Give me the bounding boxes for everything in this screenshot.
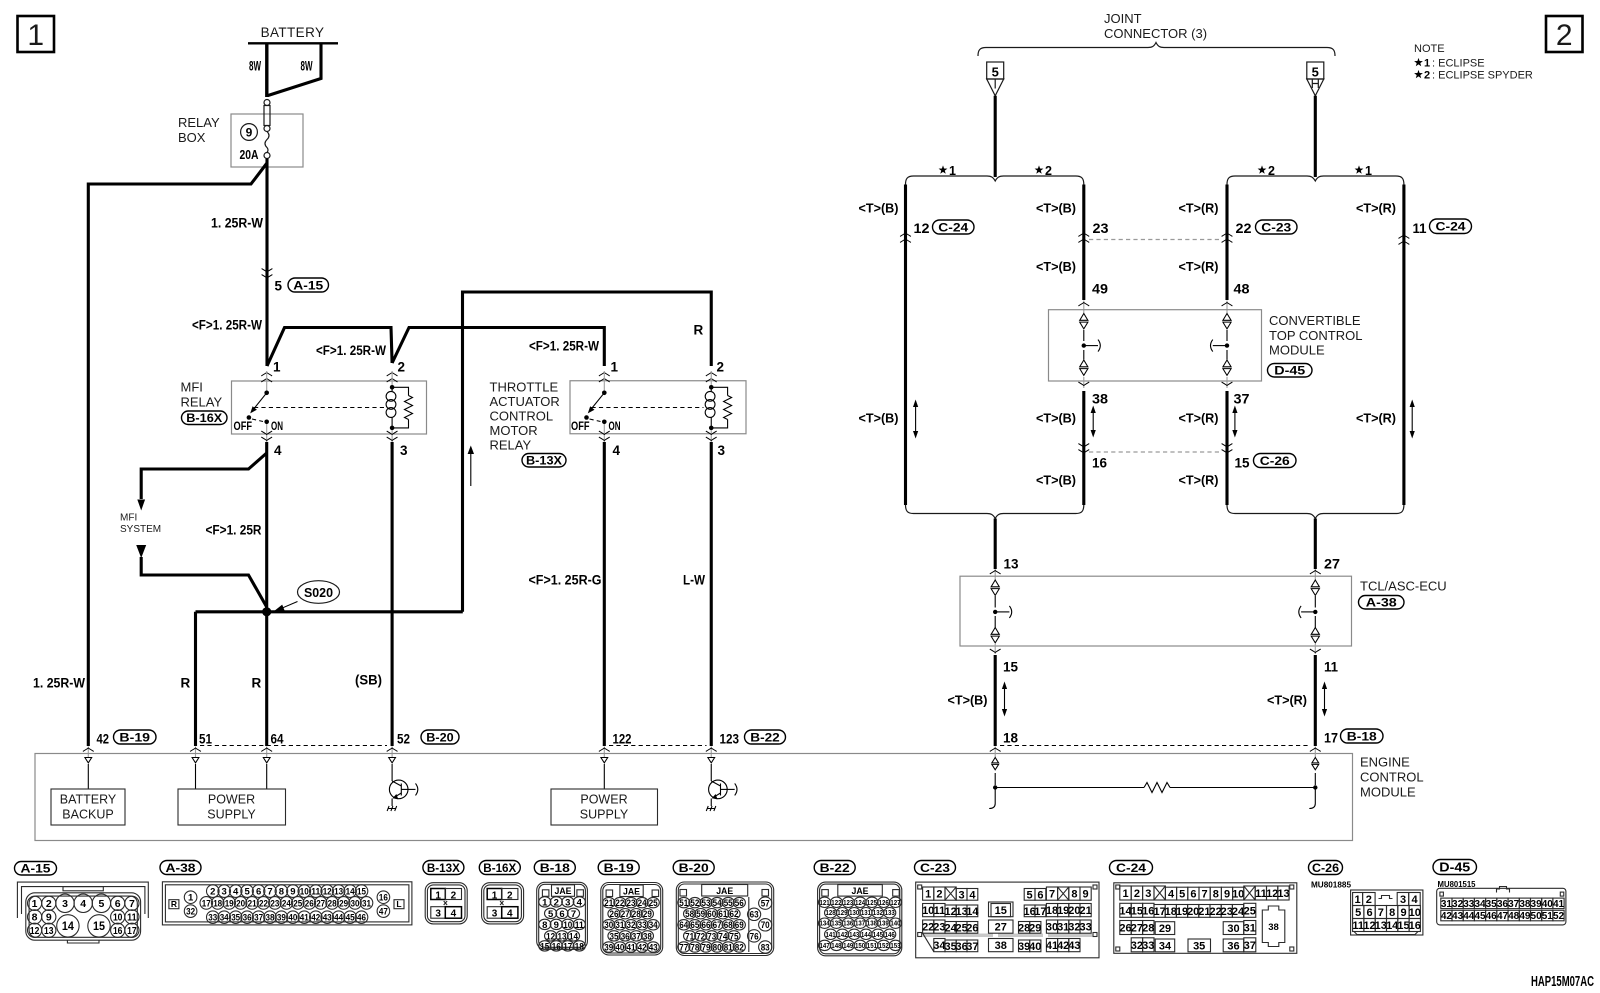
direction arrow bus2 xyxy=(1091,406,1096,438)
svg-text:41: 41 xyxy=(1553,899,1565,910)
svg-text:BACKUP: BACKUP xyxy=(62,808,113,822)
svg-text:: ECLIPSE SPYDER: : ECLIPSE SPYDER xyxy=(1432,70,1533,82)
connector A-15 pinout xyxy=(15,862,149,944)
svg-text:4: 4 xyxy=(507,909,513,920)
wire label T(R) bus4 mid xyxy=(1356,411,1396,426)
svg-text:6: 6 xyxy=(1037,889,1043,901)
throttle relay pin 1 xyxy=(599,360,619,391)
dashed link pins 51-64-52 xyxy=(200,745,387,747)
svg-text:46: 46 xyxy=(1486,911,1498,922)
svg-text:4: 4 xyxy=(969,889,976,901)
wire MFI pin4 down to node S020 xyxy=(265,442,268,612)
convertible top module internal right pin xyxy=(1211,314,1232,376)
svg-text:4: 4 xyxy=(274,443,282,458)
svg-text:11: 11 xyxy=(1324,660,1338,675)
connector A-38 pinout xyxy=(160,861,412,925)
svg-text:23: 23 xyxy=(627,898,636,909)
wire S020 to ECM pin 64 xyxy=(265,612,268,746)
svg-text:2: 2 xyxy=(210,887,215,898)
svg-text:18: 18 xyxy=(575,941,584,952)
svg-text:3: 3 xyxy=(959,889,965,901)
svg-text:16: 16 xyxy=(1092,456,1107,471)
svg-text:2: 2 xyxy=(1134,888,1140,900)
svg-text:4: 4 xyxy=(1168,889,1175,901)
svg-text:8: 8 xyxy=(279,887,284,898)
svg-text:5: 5 xyxy=(275,279,283,294)
svg-text:7: 7 xyxy=(1049,889,1055,901)
svg-text:B-13X: B-13X xyxy=(526,454,562,468)
svg-text:135: 135 xyxy=(831,921,841,928)
svg-text:31: 31 xyxy=(1441,899,1453,910)
convertible top module pin 37 xyxy=(1222,377,1250,407)
svg-text:58: 58 xyxy=(685,909,694,920)
wire MFI pin3 to ECM pin 52 xyxy=(391,442,394,746)
wire label 1.25R-W xyxy=(211,216,263,231)
svg-text:<T>(B): <T>(B) xyxy=(1036,259,1076,274)
MFI SYSTEM label xyxy=(120,513,161,536)
svg-text:B-16X: B-16X xyxy=(483,861,516,875)
svg-text:MFI: MFI xyxy=(181,380,203,395)
svg-text:83: 83 xyxy=(761,942,770,953)
svg-text:B-22: B-22 xyxy=(750,730,780,744)
svg-text:1: 1 xyxy=(925,889,931,901)
svg-text:67: 67 xyxy=(713,920,722,931)
TCL pin 15 to ECM pin 18 wire xyxy=(990,644,1019,746)
svg-text:37: 37 xyxy=(1508,899,1520,910)
connector C-26 pinout xyxy=(1309,861,1423,936)
svg-text:40: 40 xyxy=(615,942,624,953)
svg-text:5: 5 xyxy=(548,909,554,920)
svg-text:128: 128 xyxy=(826,910,836,917)
svg-text:<T>(R): <T>(R) xyxy=(1356,201,1396,216)
svg-text:S020: S020 xyxy=(304,586,333,600)
svg-text:69: 69 xyxy=(735,920,744,931)
svg-text:42: 42 xyxy=(1441,911,1453,922)
svg-text:2: 2 xyxy=(507,890,513,901)
transistor Q2 (pin 123 driver) xyxy=(706,758,737,812)
svg-text:9: 9 xyxy=(290,887,295,898)
connector B-20 pinout xyxy=(673,861,774,956)
connector C-24 pin 12 xyxy=(900,220,974,242)
svg-text:39: 39 xyxy=(1531,899,1543,910)
svg-text:140: 140 xyxy=(890,921,900,928)
svg-text:35: 35 xyxy=(610,931,620,942)
svg-text:7: 7 xyxy=(267,887,272,898)
throttle relay coil resistor xyxy=(711,387,731,428)
wire branch to battery backup (left) xyxy=(88,163,267,746)
svg-text:130: 130 xyxy=(849,910,859,917)
svg-text:8W: 8W xyxy=(301,59,313,74)
svg-text:17: 17 xyxy=(1034,906,1046,918)
svg-text:33: 33 xyxy=(1463,899,1475,910)
svg-text:9: 9 xyxy=(246,126,253,140)
svg-text:31: 31 xyxy=(362,898,372,909)
svg-text:SUPPLY: SUPPLY xyxy=(207,808,256,822)
svg-text:CONVERTIBLE: CONVERTIBLE xyxy=(1269,313,1361,328)
convertible top module internal left pin xyxy=(1080,314,1101,376)
svg-text:47: 47 xyxy=(1497,911,1509,922)
svg-text:36: 36 xyxy=(1227,940,1239,952)
svg-text:TOP CONTROL: TOP CONTROL xyxy=(1269,328,1362,343)
svg-text:3: 3 xyxy=(1400,894,1406,906)
svg-text:4: 4 xyxy=(233,887,239,898)
svg-text:80: 80 xyxy=(713,942,722,953)
svg-text:17: 17 xyxy=(1324,731,1338,746)
svg-text:27: 27 xyxy=(621,909,630,920)
svg-text:1: 1 xyxy=(1355,894,1361,906)
svg-text:6: 6 xyxy=(256,887,261,898)
connector B-22 pinout xyxy=(814,861,902,956)
svg-text:72: 72 xyxy=(696,931,705,942)
svg-text:132: 132 xyxy=(873,910,883,917)
svg-text:38: 38 xyxy=(643,931,652,942)
svg-text:<T>(B): <T>(B) xyxy=(1036,473,1076,488)
svg-text:82: 82 xyxy=(735,942,744,953)
svg-text:150: 150 xyxy=(855,943,865,950)
svg-text:D-45: D-45 xyxy=(1439,861,1470,875)
svg-text:122: 122 xyxy=(831,900,841,907)
wire label T(R) above pin 48 xyxy=(1179,259,1219,274)
svg-text:131: 131 xyxy=(861,910,871,917)
svg-text:22: 22 xyxy=(1236,221,1252,236)
svg-text:22: 22 xyxy=(259,898,268,909)
svg-text:R: R xyxy=(694,323,704,338)
svg-text:43: 43 xyxy=(323,913,332,924)
power supply block 2 xyxy=(551,758,658,826)
svg-text:3: 3 xyxy=(565,897,570,908)
svg-text:24: 24 xyxy=(282,898,292,909)
svg-text:A-38: A-38 xyxy=(166,861,196,875)
node S020 junction xyxy=(262,607,271,616)
svg-text:10: 10 xyxy=(563,920,572,931)
svg-text:3: 3 xyxy=(492,909,498,920)
MFI relay coil resistor xyxy=(392,387,412,428)
connector B-13X pinout xyxy=(423,861,467,924)
svg-text:7: 7 xyxy=(1202,889,1208,901)
svg-text:11: 11 xyxy=(311,887,321,898)
svg-text:C-26: C-26 xyxy=(1260,454,1290,468)
svg-text:41: 41 xyxy=(627,942,637,953)
svg-text:14: 14 xyxy=(62,919,74,933)
joint connector (3) title xyxy=(1104,11,1207,41)
svg-text:5: 5 xyxy=(1312,65,1319,80)
bus wire T(R) inner right xyxy=(1225,185,1228,506)
connector C-23 pinout xyxy=(915,861,1100,958)
svg-text:MOTOR: MOTOR xyxy=(490,423,538,438)
svg-text:21: 21 xyxy=(1079,905,1091,917)
svg-text:<T>(R): <T>(R) xyxy=(1179,473,1219,488)
ECM pin 18 chevron xyxy=(990,747,1001,758)
svg-text:A-15: A-15 xyxy=(293,278,323,292)
svg-text:123: 123 xyxy=(720,732,740,747)
svg-text:MODULE: MODULE xyxy=(1269,343,1325,358)
ECM pin 123 entry xyxy=(706,730,786,758)
svg-text:14: 14 xyxy=(346,887,356,898)
fuse 9 20A xyxy=(240,100,271,163)
MFI relay B-16X box xyxy=(181,380,427,435)
svg-text:29: 29 xyxy=(339,898,348,909)
svg-text:11: 11 xyxy=(127,912,137,924)
svg-text:29: 29 xyxy=(1029,922,1041,934)
svg-text:123: 123 xyxy=(843,900,853,907)
svg-text:15: 15 xyxy=(93,919,105,933)
svg-text:62: 62 xyxy=(730,909,739,920)
svg-text:: ECLIPSE: : ECLIPSE xyxy=(1432,58,1485,70)
svg-text:33: 33 xyxy=(1142,940,1154,952)
svg-text:19: 19 xyxy=(225,898,234,909)
svg-text:29: 29 xyxy=(1159,923,1171,935)
svg-text:13: 13 xyxy=(334,887,343,898)
svg-text:139: 139 xyxy=(879,921,889,928)
svg-text:37: 37 xyxy=(1234,392,1250,407)
svg-text:70: 70 xyxy=(761,920,770,931)
svg-text:2: 2 xyxy=(1424,70,1430,82)
svg-text:48: 48 xyxy=(1234,282,1251,297)
svg-text:23: 23 xyxy=(1093,221,1110,236)
svg-text:<T>(R): <T>(R) xyxy=(1267,693,1307,708)
svg-text:5: 5 xyxy=(992,65,999,80)
svg-text:1: 1 xyxy=(435,890,441,901)
svg-text:16: 16 xyxy=(113,925,123,937)
svg-text:152: 152 xyxy=(879,943,889,950)
connector C-24 pinout xyxy=(1110,861,1297,954)
throttle actuator control motor relay B-13X box xyxy=(490,380,747,453)
svg-text:10: 10 xyxy=(1409,907,1421,919)
svg-text:ACTUATOR: ACTUATOR xyxy=(490,394,560,409)
svg-text:21: 21 xyxy=(248,898,258,909)
svg-text:1: 1 xyxy=(492,890,498,901)
svg-text:R: R xyxy=(252,676,262,691)
svg-text:51: 51 xyxy=(1542,911,1554,922)
wire S020 bus xyxy=(196,610,463,613)
svg-text:4: 4 xyxy=(577,897,583,908)
bus wire T(B) inner left xyxy=(1082,185,1085,506)
svg-text:79: 79 xyxy=(702,942,711,953)
svg-text:C-24: C-24 xyxy=(1116,861,1146,875)
svg-text:71: 71 xyxy=(685,931,695,942)
convertible top module pin 38 xyxy=(1078,377,1108,407)
svg-text:51: 51 xyxy=(679,898,689,909)
svg-text:1. 25R-W: 1. 25R-W xyxy=(33,676,85,691)
dashed link pins 122-123 xyxy=(609,745,707,747)
svg-text:18: 18 xyxy=(213,898,222,909)
svg-text:31: 31 xyxy=(1244,923,1256,935)
svg-text:ON: ON xyxy=(271,421,283,433)
MFI relay pin 2 xyxy=(387,360,405,386)
svg-text:136: 136 xyxy=(843,921,853,928)
dashed link pins 23-22 xyxy=(1089,239,1222,241)
wire battery positive leads 8W xyxy=(267,43,321,97)
svg-text:L-W: L-W xyxy=(683,573,705,588)
svg-text:3: 3 xyxy=(400,443,408,458)
connector C-24 pin 11 xyxy=(1399,219,1472,244)
svg-text:JAE: JAE xyxy=(716,886,733,897)
svg-text:49: 49 xyxy=(1092,282,1108,297)
svg-text:144: 144 xyxy=(861,932,871,939)
svg-text:17: 17 xyxy=(127,925,137,937)
svg-text:43: 43 xyxy=(649,942,658,953)
svg-text:8: 8 xyxy=(1213,889,1219,901)
svg-text:26: 26 xyxy=(610,909,619,920)
svg-text:64: 64 xyxy=(271,732,284,747)
svg-text:15: 15 xyxy=(357,887,367,898)
MFI relay connector label B-16X xyxy=(182,411,228,425)
TCL pin 11 to ECM pin 17 wire xyxy=(1310,644,1339,746)
svg-text:15: 15 xyxy=(1003,660,1018,675)
wire label 1.25R-W (bottom left) xyxy=(33,676,85,691)
connector A-15 pin 5 marker xyxy=(262,269,329,294)
svg-text:<F>1. 25R-W: <F>1. 25R-W xyxy=(529,339,599,354)
svg-text:76: 76 xyxy=(750,931,759,942)
direction arrow bus4 xyxy=(1410,400,1415,439)
svg-text:10: 10 xyxy=(113,912,123,924)
svg-text:81: 81 xyxy=(724,942,734,953)
throttle relay switch xyxy=(571,391,704,434)
svg-text:<T>(B): <T>(B) xyxy=(1036,201,1076,216)
svg-text:B-22: B-22 xyxy=(820,861,850,875)
wire label T(B) bus1 mid xyxy=(859,411,899,426)
svg-text:129: 129 xyxy=(837,910,847,917)
svg-text:BATTERY: BATTERY xyxy=(60,793,117,807)
bus wire T(R) outer right xyxy=(1402,185,1405,506)
connector B-19 pinout xyxy=(598,861,663,956)
svg-text:6: 6 xyxy=(115,898,121,910)
svg-text:25: 25 xyxy=(293,898,303,909)
svg-text:2: 2 xyxy=(936,889,942,901)
svg-text:30: 30 xyxy=(604,920,613,931)
svg-text:<T>(R): <T>(R) xyxy=(1356,411,1396,426)
svg-text:13: 13 xyxy=(44,925,54,937)
svg-text:15: 15 xyxy=(540,941,550,952)
svg-text:10: 10 xyxy=(300,887,309,898)
svg-text:3: 3 xyxy=(718,443,726,458)
svg-text:27: 27 xyxy=(1324,557,1340,572)
svg-text:<T>(B): <T>(B) xyxy=(859,411,899,426)
svg-text:ENGINE: ENGINE xyxy=(1360,755,1410,770)
MFI relay coil xyxy=(386,385,396,430)
svg-text:C-26: C-26 xyxy=(1312,861,1339,875)
variant marker star1 left xyxy=(939,164,956,178)
svg-text:10: 10 xyxy=(922,905,934,917)
svg-text:3: 3 xyxy=(62,898,68,910)
svg-text:1: 1 xyxy=(542,897,548,908)
svg-text:41: 41 xyxy=(300,913,310,924)
connector B-18 pinout xyxy=(534,861,587,953)
svg-text:38: 38 xyxy=(266,913,275,924)
svg-text:148: 148 xyxy=(831,943,841,950)
wire label F 1.25R-W (to throttle) xyxy=(529,339,599,354)
wire label T(B) bus2 xyxy=(1036,201,1076,216)
bus merge brace left bottom xyxy=(906,505,1084,519)
svg-text:HAP15M07AC: HAP15M07AC xyxy=(1531,974,1594,990)
svg-text:<T>(B): <T>(B) xyxy=(948,693,988,708)
svg-text:10: 10 xyxy=(1232,889,1244,901)
svg-text:9: 9 xyxy=(46,912,52,924)
wire MFI pin2 to throttle relay pin 1 xyxy=(392,328,604,367)
svg-text:2: 2 xyxy=(1556,19,1573,52)
direction arrow bus1 xyxy=(913,400,918,439)
wire label L-W xyxy=(683,573,705,588)
svg-text:53: 53 xyxy=(702,898,711,909)
svg-text:C-24: C-24 xyxy=(1436,220,1466,234)
ECM pin 64 entry xyxy=(261,732,284,758)
svg-text:22: 22 xyxy=(615,898,624,909)
svg-text:L: L xyxy=(396,899,401,909)
svg-text:<F>1. 25R-G: <F>1. 25R-G xyxy=(529,573,602,588)
wire joint connector T down xyxy=(994,96,997,177)
svg-text:B-13X: B-13X xyxy=(427,861,460,875)
wire branch from MFI system (lower arrow) xyxy=(136,545,267,607)
svg-text:9: 9 xyxy=(1224,889,1230,901)
svg-text:42: 42 xyxy=(311,913,320,924)
svg-text:73: 73 xyxy=(707,931,716,942)
svg-text:7: 7 xyxy=(1378,907,1384,919)
wire merged right to TCL pin 27 xyxy=(1310,519,1340,581)
svg-text:D-45: D-45 xyxy=(1274,364,1305,378)
svg-text:24: 24 xyxy=(638,898,648,909)
wire label (SB) xyxy=(355,673,382,688)
svg-text:37: 37 xyxy=(1244,940,1256,952)
svg-text:2: 2 xyxy=(1366,894,1372,906)
svg-text:33: 33 xyxy=(208,913,217,924)
diagram code HAP15M07AC xyxy=(1531,974,1594,990)
direction arrow lower right xyxy=(1322,682,1327,717)
dashed link pins 16-15 xyxy=(1089,451,1222,453)
svg-text:26: 26 xyxy=(966,922,978,934)
svg-text:9: 9 xyxy=(1400,907,1406,919)
svg-text:44: 44 xyxy=(334,913,344,924)
svg-text:52: 52 xyxy=(690,898,699,909)
wire label R (pin 64) xyxy=(252,676,262,691)
relay box xyxy=(178,114,303,167)
svg-text:25: 25 xyxy=(1244,905,1256,917)
svg-text:3: 3 xyxy=(1145,888,1151,900)
node S020 callout xyxy=(274,581,340,612)
svg-text:75: 75 xyxy=(730,931,740,942)
svg-text:C-24: C-24 xyxy=(938,220,968,234)
svg-text:1: 1 xyxy=(27,19,44,52)
svg-text:12: 12 xyxy=(30,925,40,937)
svg-text:32: 32 xyxy=(627,920,636,931)
svg-text:14: 14 xyxy=(966,906,979,918)
svg-text:5: 5 xyxy=(1179,889,1185,901)
svg-text:59: 59 xyxy=(696,909,705,920)
svg-text:CONNECTOR (3): CONNECTOR (3) xyxy=(1104,26,1207,41)
svg-text:11: 11 xyxy=(575,920,585,931)
convertible top module pin 49 xyxy=(1078,282,1108,314)
TCL/ASC-ECU box xyxy=(960,576,1447,646)
svg-text:56: 56 xyxy=(735,898,744,909)
svg-text:125: 125 xyxy=(867,900,877,907)
svg-text:63: 63 xyxy=(750,910,759,921)
svg-text:43: 43 xyxy=(1068,940,1080,952)
wire label T(B) bus2 mid xyxy=(1036,411,1076,426)
svg-text:151: 151 xyxy=(867,943,877,950)
svg-text:B-18: B-18 xyxy=(1347,729,1377,743)
wire label T(R) bus3 lower xyxy=(1179,473,1219,488)
svg-text:THROTTLE: THROTTLE xyxy=(490,380,559,395)
svg-text:25: 25 xyxy=(649,898,659,909)
svg-text:42: 42 xyxy=(638,942,647,953)
svg-text:18: 18 xyxy=(1003,731,1018,746)
svg-text:BATTERY: BATTERY xyxy=(261,25,325,40)
engine control module box xyxy=(35,754,1424,841)
svg-text:45: 45 xyxy=(1474,911,1486,922)
svg-text:34: 34 xyxy=(649,920,659,931)
svg-text:38: 38 xyxy=(1519,899,1531,910)
svg-text:124: 124 xyxy=(855,900,865,907)
wire label T(R) lower right xyxy=(1267,693,1307,708)
